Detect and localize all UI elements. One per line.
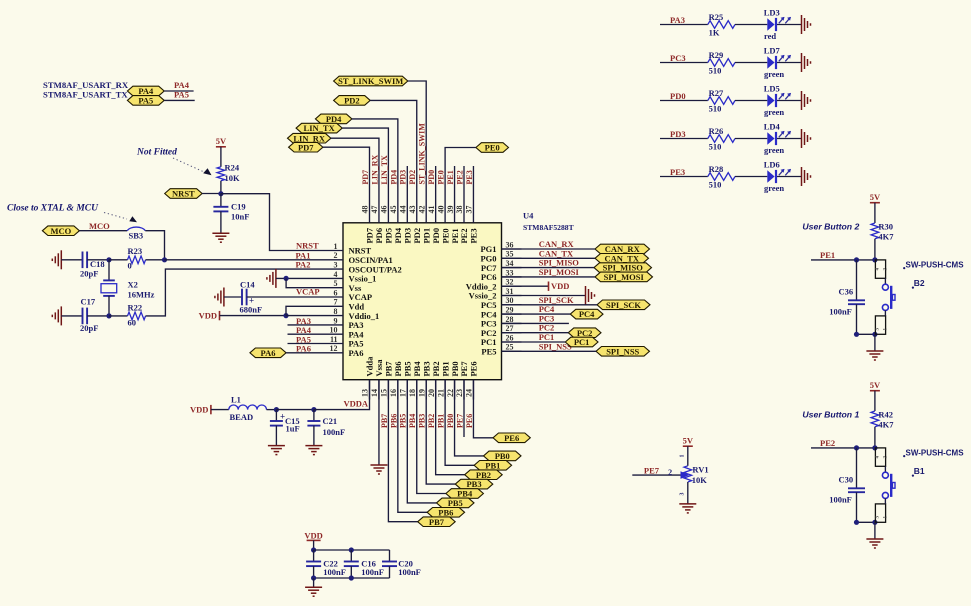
- wire PE3 to R28: [660, 176, 708, 178]
- svg-text:STM8AF5288T: STM8AF5288T: [523, 223, 574, 232]
- svg-text:PD7: PD7: [298, 142, 314, 152]
- svg-text:47: 47: [370, 206, 379, 214]
- svg-text:BEAD: BEAD: [230, 412, 254, 422]
- capacitor C16: [344, 561, 359, 563]
- wire C22 column: [313, 550, 315, 562]
- svg-text:20pF: 20pF: [80, 269, 98, 279]
- designator B1: [912, 475, 914, 477]
- switch B1 SW-PUSH-CMS: [875, 448, 885, 466]
- wire VDDA to pin 13: [314, 380, 370, 410]
- svg-text:PB7: PB7: [429, 517, 445, 527]
- port SPI_MOSI: [595, 272, 653, 282]
- svg-text:12: 12: [330, 344, 338, 353]
- wire C21 to ground: [313, 426, 315, 446]
- wire PD2 to IC: [370, 100, 417, 203]
- resistor R23: [128, 256, 146, 264]
- capacitor C17: [82, 308, 84, 325]
- power VDD vdda block: [210, 405, 212, 414]
- svg-text:8: 8: [334, 307, 338, 316]
- svg-text:VDD: VDD: [199, 311, 217, 321]
- svg-text:2: 2: [334, 251, 338, 260]
- port SPI_SCK: [597, 300, 650, 310]
- wire C36 to bottom rail: [856, 304, 858, 334]
- wire switch to ground B1: [874, 522, 876, 539]
- svg-text:red: red: [764, 31, 776, 41]
- svg-text:4: 4: [334, 270, 338, 279]
- LED LD4: [767, 132, 774, 145]
- potentiometer RV1: [684, 466, 692, 482]
- node bottom rail junction C16: [349, 575, 354, 580]
- svg-text:16: 16: [389, 389, 398, 397]
- wire junction to pin 5: [286, 278, 323, 287]
- svg-text:R22: R22: [128, 302, 143, 312]
- wire ST_LINK_SWIM to IC: [408, 81, 426, 203]
- svg-text:44: 44: [399, 206, 408, 214]
- resistor R42: [871, 411, 879, 427]
- port MCO: [42, 226, 79, 236]
- IC bottom pin stubs 13-24: [369, 380, 371, 400]
- ground LD7: [801, 53, 803, 72]
- wire PE0 to IC: [445, 148, 476, 204]
- wire pin36 to CAN_RX: [502, 248, 596, 250]
- wire C20 column: [389, 550, 391, 562]
- port LIN_RX: [288, 133, 331, 143]
- svg-text:Close to XTAL & MCU: Close to XTAL & MCU: [7, 204, 99, 214]
- wire 5V to R24: [220, 147, 222, 167]
- svg-text:User Button 1: User Button 1: [802, 410, 859, 420]
- svg-text:PC1: PC1: [574, 337, 590, 347]
- svg-text:SW-PUSH-CMS: SW-PUSH-CMS: [906, 261, 965, 270]
- svg-text:PB2: PB2: [427, 414, 436, 428]
- ground below C21: [305, 445, 322, 447]
- svg-text:510: 510: [709, 142, 722, 152]
- wire pin35 to CAN_TX: [502, 257, 596, 259]
- capacitor C21: [307, 420, 320, 422]
- wire bottom rail: [313, 566, 315, 578]
- ground LD3: [801, 15, 803, 34]
- wire junction to C19: [220, 194, 222, 207]
- node junction C21: [311, 407, 316, 412]
- IC U4 STM8AF5288T body: [343, 223, 502, 380]
- svg-text:34: 34: [506, 259, 514, 268]
- wire PE1 net: [811, 259, 875, 261]
- wire NRST port to junction: [202, 193, 221, 195]
- svg-text:green: green: [764, 145, 784, 155]
- wire junction X2 to R22: [109, 315, 128, 317]
- svg-text:1: 1: [680, 455, 686, 458]
- svg-text:PE1: PE1: [820, 250, 835, 260]
- wire R24 to junction: [220, 181, 222, 194]
- wire PB2 down: [436, 380, 465, 475]
- wire R26 to LD4: [735, 138, 767, 140]
- svg-text:green: green: [764, 183, 784, 193]
- svg-text:RV1: RV1: [692, 464, 708, 474]
- wire RV1 to ground: [687, 482, 689, 504]
- wire MCO to SB3: [79, 230, 127, 232]
- wire PB0 down: [455, 380, 484, 456]
- svg-text:B1: B1: [914, 466, 925, 476]
- port PC4: [570, 309, 603, 319]
- svg-text:VDD: VDD: [304, 531, 322, 541]
- svg-text:PE2: PE2: [820, 438, 835, 448]
- node junction switch top: [872, 257, 877, 262]
- wire PE2 net: [811, 447, 875, 449]
- wire PD0 to R27: [660, 100, 708, 102]
- svg-text:48: 48: [361, 206, 370, 214]
- svg-text:42: 42: [417, 206, 426, 214]
- svg-text:37: 37: [465, 206, 474, 214]
- svg-text:13: 13: [361, 389, 370, 397]
- wire PD7 to IC: [323, 147, 370, 203]
- svg-text:R23: R23: [128, 246, 143, 256]
- wire L1 to junction C15: [267, 409, 277, 411]
- svg-text:PD0: PD0: [670, 91, 686, 101]
- svg-text:15: 15: [380, 389, 389, 397]
- svg-text:14: 14: [370, 389, 379, 397]
- svg-text:PA2: PA2: [296, 260, 311, 270]
- svg-text:PE0: PE0: [485, 143, 500, 153]
- wire junction to C21: [313, 410, 315, 421]
- svg-text:32: 32: [506, 278, 514, 287]
- ground left of C14: [223, 288, 225, 307]
- ground below Vssa: [370, 464, 387, 466]
- svg-text:LD4: LD4: [764, 122, 781, 132]
- svg-text:1K: 1K: [709, 28, 720, 38]
- wire ground to C17: [61, 315, 82, 317]
- wire PE3 stub up: [472, 166, 474, 203]
- svg-text:33: 33: [506, 268, 514, 277]
- ground below C15: [268, 445, 285, 447]
- svg-text:5V: 5V: [216, 136, 227, 146]
- node rail junction C16: [349, 547, 354, 552]
- svg-text:PB3: PB3: [418, 414, 427, 428]
- power VDD pin32: [548, 282, 550, 291]
- svg-text:PE0: PE0: [437, 170, 446, 184]
- svg-text:100nF: 100nF: [829, 307, 852, 317]
- LED LD7: [767, 56, 774, 69]
- svg-text:23: 23: [455, 389, 464, 397]
- LED LD5: [767, 94, 774, 107]
- svg-text:R29: R29: [709, 50, 724, 60]
- capacitor C22: [306, 561, 321, 563]
- capacitor C18: [82, 252, 84, 269]
- svg-text:21: 21: [436, 389, 445, 397]
- svg-text:PB1: PB1: [437, 414, 446, 428]
- svg-text:R24: R24: [225, 163, 240, 173]
- svg-text:PD3: PD3: [399, 170, 408, 185]
- ground pin31: [585, 286, 587, 305]
- svg-text:45: 45: [389, 206, 398, 214]
- wire switch to ground B2: [874, 334, 876, 351]
- svg-text:PA3: PA3: [670, 15, 685, 25]
- wire VDD to L1: [211, 409, 229, 411]
- port NRST: [165, 189, 202, 199]
- svg-text:C36: C36: [839, 286, 854, 296]
- resistor R29: [708, 59, 735, 67]
- wire R30 to junction: [874, 239, 876, 260]
- svg-text:PE3: PE3: [465, 170, 474, 184]
- wire R23 to junction A: [146, 259, 165, 261]
- wire PD3 stub up: [406, 166, 408, 203]
- svg-text:C14: C14: [240, 279, 255, 289]
- svg-text:PD7: PD7: [361, 170, 370, 185]
- resistor R30: [871, 223, 879, 239]
- wire ground to C14: [224, 296, 242, 298]
- svg-text:20pF: 20pF: [80, 323, 98, 333]
- svg-text:PD2: PD2: [408, 170, 417, 185]
- svg-text:0: 0: [128, 260, 132, 270]
- wire NRST net to pin 1: [221, 194, 323, 251]
- LED LD3: [767, 18, 774, 31]
- port CAN_RX: [595, 244, 650, 254]
- node junction C tap C36: [854, 257, 859, 262]
- wire PE6 down: [473, 380, 493, 438]
- ground left of C18: [60, 250, 62, 269]
- resistor R26: [708, 135, 735, 143]
- svg-text:40: 40: [436, 206, 445, 214]
- node junction switch bottom: [872, 520, 877, 525]
- svg-text:LD3: LD3: [764, 8, 780, 18]
- svg-text:510: 510: [709, 104, 722, 114]
- port ST_LINK_SWIM: [334, 76, 408, 86]
- svg-text:11: 11: [330, 335, 338, 344]
- wire 5V to R42: [874, 391, 876, 411]
- svg-text:5V: 5V: [683, 436, 694, 446]
- svg-text:100nF: 100nF: [361, 567, 384, 577]
- svg-text:100nF: 100nF: [323, 567, 346, 577]
- crystal X2: [108, 260, 110, 281]
- label SW-PUSH-CMS B1: [903, 455, 905, 457]
- svg-text:PD2: PD2: [344, 96, 360, 106]
- ground LD4: [801, 129, 803, 148]
- svg-text:VDD: VDD: [551, 281, 569, 291]
- power VDD left of IC: [219, 311, 221, 320]
- svg-text:PE7: PE7: [644, 465, 660, 475]
- wire LIN_RX to IC: [331, 138, 379, 203]
- capacitor C15 polarized: [270, 420, 283, 422]
- svg-text:5: 5: [334, 279, 338, 288]
- port PA4: [127, 86, 164, 96]
- wire PB1 down: [445, 380, 474, 466]
- svg-text:PA5: PA5: [138, 96, 153, 106]
- svg-text:100nF: 100nF: [323, 427, 346, 437]
- svg-text:R26: R26: [709, 126, 724, 136]
- port PD7: [289, 142, 323, 152]
- wire LD7 to ground: [777, 62, 802, 64]
- wire PA3 to R25: [660, 24, 708, 26]
- svg-text:LD6: LD6: [764, 160, 780, 170]
- wire C18 to junction X1: [87, 259, 109, 261]
- wire LD6 to ground: [777, 176, 802, 178]
- svg-text:PD0: PD0: [427, 170, 436, 185]
- svg-text:60: 60: [128, 317, 137, 327]
- svg-text:1uF: 1uF: [286, 423, 300, 433]
- svg-text:R30: R30: [878, 221, 893, 231]
- node rail junction C22: [311, 547, 316, 552]
- svg-text:46: 46: [380, 206, 389, 214]
- svg-text:STM8AF_USART_TX: STM8AF_USART_TX: [43, 90, 128, 100]
- wire pin30 to SPI_SCK: [502, 304, 598, 306]
- svg-text:NRST: NRST: [296, 241, 319, 251]
- wire PA6 port to pin 12: [286, 352, 323, 354]
- svg-text:27: 27: [506, 324, 514, 333]
- svg-text:PE3: PE3: [469, 228, 479, 243]
- port PA5: [127, 96, 164, 106]
- svg-text:R42: R42: [878, 409, 893, 419]
- wire R25 to LD3: [735, 24, 767, 26]
- port PE0: [476, 143, 509, 153]
- wire junction to pin 7: [286, 306, 323, 315]
- svg-text:9: 9: [334, 316, 338, 325]
- svg-text:green: green: [764, 69, 784, 79]
- port PC2: [568, 328, 601, 338]
- ground below caps: [305, 586, 322, 588]
- node junction X1: [106, 257, 111, 262]
- svg-text:LIN_RX: LIN_RX: [370, 154, 379, 184]
- capacitor C30: [848, 487, 865, 489]
- port PB0: [484, 451, 522, 461]
- ground B2: [866, 350, 883, 352]
- node NRST junction: [218, 191, 223, 196]
- solder bridge SB3: [127, 227, 145, 231]
- port PD4: [315, 114, 352, 124]
- node junction A: [162, 257, 167, 262]
- wire C column C30: [856, 448, 858, 488]
- svg-text:100nF: 100nF: [398, 567, 421, 577]
- ground LD6: [801, 167, 803, 186]
- svg-text:PB5: PB5: [399, 414, 408, 428]
- svg-text:PB7: PB7: [380, 414, 389, 428]
- inductor L1 BEAD: [229, 405, 267, 410]
- wire PE7 stub down: [463, 380, 465, 437]
- wire C30 to bottom rail: [856, 492, 858, 522]
- wire PB4 down: [417, 380, 446, 494]
- svg-text:20: 20: [427, 389, 436, 397]
- svg-text:B2: B2: [914, 278, 925, 288]
- svg-text:LD7: LD7: [764, 46, 781, 56]
- IC right pin stubs 25-36: [502, 248, 522, 250]
- node VDD junction: [283, 313, 288, 318]
- wire LIN_TX to IC: [342, 128, 388, 203]
- port PB1: [474, 461, 512, 471]
- svg-text:Not Fitted: Not Fitted: [136, 148, 177, 158]
- svg-text:PC3: PC3: [670, 53, 686, 63]
- svg-text:C21: C21: [323, 416, 338, 426]
- svg-text:10: 10: [330, 326, 338, 335]
- port CAN_TX: [595, 254, 649, 264]
- wire PB7 down: [388, 380, 417, 522]
- svg-text:26: 26: [506, 333, 514, 342]
- node junction C bottom: [854, 520, 859, 525]
- svg-text:100nF: 100nF: [829, 495, 852, 505]
- node junction C15: [274, 407, 279, 412]
- svg-text:C17: C17: [81, 297, 96, 307]
- wire Vssa pin14 to ground: [378, 380, 380, 465]
- svg-text:10K: 10K: [692, 475, 708, 485]
- svg-text:41: 41: [427, 206, 436, 214]
- ground below RV1: [679, 503, 696, 505]
- svg-text:39: 39: [446, 206, 455, 214]
- wire 5V to R30: [874, 203, 876, 223]
- port PB3: [455, 479, 493, 489]
- wire C19 to ground: [220, 211, 222, 233]
- svg-text:PE1: PE1: [446, 170, 455, 184]
- wire R42 to junction: [874, 427, 876, 448]
- svg-text:510: 510: [709, 180, 722, 190]
- wire ground to C18: [61, 259, 82, 261]
- svg-text:SPI_SCK: SPI_SCK: [606, 300, 641, 310]
- wire VDD to rail: [313, 540, 315, 550]
- svg-text:10K: 10K: [225, 173, 241, 183]
- svg-text:SPI_NSS: SPI_NSS: [606, 346, 639, 356]
- svg-text:PA6: PA6: [349, 348, 364, 358]
- wire pin31 to ground: [502, 295, 586, 297]
- svg-text:User Button 2: User Button 2: [802, 222, 859, 232]
- svg-text:25: 25: [506, 343, 514, 352]
- wire junction A to pin 2: [165, 259, 324, 261]
- port PB7: [418, 517, 456, 527]
- annotation arrow dotted: [173, 158, 203, 172]
- svg-text:U4: U4: [523, 211, 534, 221]
- svg-text:VDDA: VDDA: [344, 399, 369, 409]
- svg-text:22: 22: [446, 389, 455, 397]
- wire R27 to LD5: [735, 100, 767, 102]
- svg-text:PB0: PB0: [446, 414, 455, 428]
- resistor R25: [708, 21, 735, 29]
- svg-text:PE5: PE5: [481, 347, 496, 357]
- svg-text:43: 43: [408, 206, 417, 214]
- port LIN_TX: [296, 123, 342, 133]
- port PA6: [250, 348, 286, 358]
- svg-text:LIN_TX: LIN_TX: [380, 155, 389, 185]
- wire PD3 to R26: [660, 138, 708, 140]
- svg-text:31: 31: [506, 287, 514, 296]
- port PB6: [427, 508, 465, 518]
- svg-text:2: 2: [668, 468, 672, 477]
- wire C16 column: [350, 550, 352, 562]
- svg-text:1: 1: [334, 242, 338, 251]
- svg-text:7: 7: [334, 298, 338, 307]
- svg-text:5V: 5V: [870, 192, 881, 202]
- wire PE2 stub up: [463, 166, 465, 203]
- wire R28 to LD6: [735, 176, 767, 178]
- wire VDD to junction: [220, 315, 287, 317]
- wire PA4 stub: [164, 90, 193, 92]
- wire rail to ground: [313, 578, 315, 587]
- wire C column C36: [856, 260, 858, 300]
- svg-text:3: 3: [334, 261, 338, 270]
- svg-text:PE6: PE6: [504, 433, 519, 443]
- node junction switch bottom: [872, 332, 877, 337]
- wire PA4 stub pin10: [288, 333, 324, 335]
- wire C17 to junction X2: [87, 315, 109, 317]
- svg-text:SB3: SB3: [129, 230, 144, 240]
- node junction pin4: [284, 276, 289, 281]
- LED LD6: [767, 170, 774, 183]
- wire pin29 to PC4: [502, 313, 571, 315]
- svg-text:5V: 5V: [870, 380, 881, 390]
- svg-text:36: 36: [506, 240, 514, 249]
- port SPI_MISO: [594, 263, 652, 273]
- ground pins 4 and 5: [275, 269, 277, 288]
- wire C14 to pin 6: [247, 296, 323, 298]
- ground B1: [866, 538, 883, 540]
- arrow RV1 wiper: [681, 471, 690, 479]
- ground below C19: [212, 232, 229, 234]
- svg-text:PD4: PD4: [389, 170, 398, 185]
- svg-text:MCO: MCO: [89, 221, 110, 231]
- IC left pin stubs 1-12: [323, 250, 343, 252]
